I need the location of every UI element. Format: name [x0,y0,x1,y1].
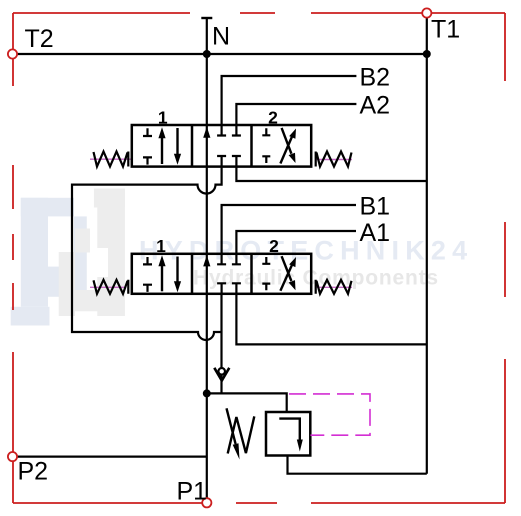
V2 cell1 blocked port bottom [143,285,152,292]
wire relief valve outlet to rail [288,456,427,474]
check valve ball [218,368,225,375]
valve V2 section [90,236,352,294]
V1 cell1 down arrow [176,128,178,158]
svg-text:P1: P1 [177,478,208,506]
V1 cell2 bottom blocked ports [217,156,241,167]
relief spring zigzag [228,416,255,453]
magenta spring line right V1 [316,159,352,161]
wire T1 rail right side [426,54,428,474]
wire N vertical main [206,18,208,503]
wire B1 [222,205,356,254]
port circle T1 [422,8,431,17]
V2 cell1 blocked port top [143,257,152,264]
port circle P2 [8,452,17,461]
spring right V2 [316,280,352,294]
wire B2 [222,76,357,125]
wire A2 [236,104,356,125]
V1 cell2 top blocked ports [217,125,241,136]
V1 cell1 blocked port top [143,128,152,136]
wire valve2 T-return to rail [236,294,426,345]
V2 cell3 cross arrow up-right [280,265,292,291]
svg-text:A2: A2 [360,92,391,120]
wire T2-T1 horizontal [13,53,427,55]
junction dot P inlet [203,389,211,397]
svg-text:T2: T2 [25,25,54,53]
V2 cell2 N flow up arrow head [203,255,210,266]
svg-text:1: 1 [156,236,166,256]
wire valve1 carryover with hop over N [72,167,222,340]
V1 cell3 blocked port bottom [262,156,270,163]
V2 cell1 up arrow [161,262,163,291]
svg-text:T1: T1 [431,16,460,44]
check valve ball seat [214,368,229,381]
V1 cell1 up arrow [161,134,163,164]
V1 cell2 N flow up arrow head [203,127,210,138]
V2 cell2 bottom blocked ports [217,283,241,294]
svg-text:B2: B2 [360,64,391,92]
V2 cell1 down arrow [176,257,178,286]
pilot line magenta dashed [289,394,370,435]
valve V1 body [132,125,311,167]
junction dot N/T2 [203,50,211,58]
V1 cell3 cross arrow down-right [282,128,292,154]
V2 cell3 cross arrow down-right [282,256,292,281]
wire P2 [13,456,207,458]
svg-text:N: N [212,23,230,51]
port circle P1 [202,498,211,507]
svg-text:B1: B1 [360,193,391,221]
spring right V1 [316,152,352,167]
svg-text:HYDROTECHNIK24: HYDROTECHNIK24 [139,236,473,266]
spring left V1 [94,152,129,167]
svg-text:1: 1 [158,108,168,128]
magenta spring line right V2 [316,286,352,288]
watermark logo H left part (pale blue) [11,198,87,326]
V1 cell3 blocked port top [262,128,270,135]
magenta spring line left V1 [90,158,131,160]
relief valve internal arrow [279,419,300,442]
relief valve RV [227,394,371,460]
wire valve1 T-return to rail [236,167,426,181]
V1 cell1 blocked port bottom [143,157,152,164]
node N top cap [201,17,212,19]
svg-text:A1: A1 [360,219,391,247]
junction dot T1/T2 [423,50,431,58]
wire A1 [236,231,356,254]
port circle T2 [8,49,17,58]
svg-text:2: 2 [269,236,279,256]
wire P inlet to relief valve [207,393,287,412]
valve V2 body [132,254,311,294]
relief adjust arrow [227,408,236,444]
magenta spring line left V2 [90,286,126,288]
relief valve body [266,412,310,456]
wire T1 stub from circle [426,13,428,54]
V2 cell2 top blocked ports [217,254,241,264]
spring left V2 [94,280,129,294]
V2 cell3 blocked port top [262,257,270,264]
wire valve2 center bottom to check valve [220,294,222,394]
V2 cell3 blocked port bottom [262,284,270,291]
valve V1 section [90,108,352,167]
svg-text:P2: P2 [18,458,49,486]
watermark logo H right part (pale gray) [59,189,125,317]
V1 cell3 cross arrow up-right [280,137,292,164]
svg-text:2: 2 [268,108,278,128]
